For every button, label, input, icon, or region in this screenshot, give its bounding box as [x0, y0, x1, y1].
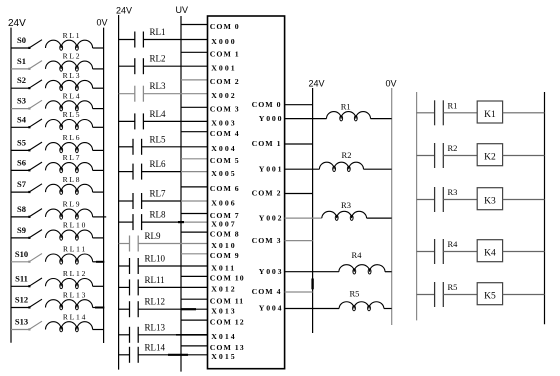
svg-text:RL3: RL3: [63, 71, 82, 80]
relay coil RL5: [46, 120, 93, 128]
wire COM 2 input terminal: [181, 79, 208, 81]
svg-text:X013: X013: [211, 307, 236, 316]
svg-text:X007: X007: [211, 219, 236, 228]
rail 0V section3: [391, 88, 393, 325]
svg-text:S11: S11: [15, 273, 28, 283]
svg-text:Y003: Y003: [259, 267, 284, 276]
svg-text:S0: S0: [17, 35, 26, 45]
switch S1: [11, 68, 30, 70]
svg-text:K1: K1: [484, 110, 496, 120]
svg-text:S4: S4: [17, 114, 27, 124]
contact R2: [417, 155, 435, 157]
svg-text:COM 9: COM 9: [210, 251, 240, 260]
svg-text:X004: X004: [211, 144, 236, 153]
svg-text:COM 2: COM 2: [252, 189, 282, 198]
svg-text:RL8: RL8: [150, 210, 167, 220]
relay coil R5: [285, 308, 340, 310]
svg-text:X001: X001: [211, 64, 236, 73]
svg-text:RL9: RL9: [63, 200, 82, 209]
PLC box: [208, 16, 285, 369]
svg-text:K2: K2: [484, 153, 496, 163]
svg-text:RL8: RL8: [63, 175, 82, 184]
svg-text:RL3: RL3: [150, 81, 167, 91]
wire COM 3 output common: [285, 240, 313, 242]
contact RL2: [119, 65, 135, 67]
svg-text:S7: S7: [17, 179, 27, 189]
svg-text:RL4: RL4: [63, 91, 82, 100]
switch S2: [11, 87, 30, 89]
switch S3: [11, 108, 30, 110]
contact RL7: [119, 200, 133, 202]
svg-text:RL10: RL10: [145, 254, 166, 264]
wire COM 0 output common: [285, 104, 313, 106]
relay coil RL6: [46, 143, 93, 151]
wire COM 8 input terminal: [181, 231, 208, 233]
svg-text:RL14: RL14: [145, 342, 166, 352]
svg-text:RL6: RL6: [150, 159, 167, 169]
rail thickening section3: [311, 279, 313, 290]
wire K5 to right rail: [503, 294, 545, 296]
svg-text:COM 4: COM 4: [210, 129, 240, 138]
svg-text:R5: R5: [448, 282, 458, 292]
svg-text:RL4: RL4: [150, 109, 167, 119]
svg-text:S5: S5: [17, 137, 26, 147]
wire COM 4 input terminal: [181, 131, 208, 133]
svg-text:COM 0: COM 0: [252, 100, 282, 109]
contact RL10: [119, 265, 130, 267]
wire junction S12 right: [95, 307, 104, 309]
wire K3 to right rail: [503, 199, 545, 201]
switch S0: [11, 47, 30, 49]
switch S5: [11, 149, 30, 151]
svg-text:COM 3: COM 3: [210, 105, 240, 114]
svg-text:Y001: Y001: [259, 164, 284, 173]
svg-text:X014: X014: [211, 332, 236, 341]
switch S12: [11, 307, 30, 309]
svg-text:R1: R1: [448, 100, 458, 110]
switch S9: [11, 237, 30, 239]
wire junction X007: [178, 221, 184, 223]
svg-text:COM 3: COM 3: [252, 236, 282, 245]
svg-text:S10: S10: [15, 249, 28, 259]
svg-text:COM 2: COM 2: [210, 77, 240, 86]
switch S7: [11, 191, 30, 193]
svg-text:0V: 0V: [97, 18, 108, 28]
contact R3: [417, 199, 435, 201]
svg-text:COM 1: COM 1: [210, 50, 240, 59]
wire COM 6 input terminal: [181, 186, 208, 188]
svg-text:RL1: RL1: [150, 27, 166, 37]
contact RL14: [119, 354, 130, 356]
switch S8: [11, 216, 30, 218]
wire COM 11 input terminal: [181, 298, 208, 300]
relay coil RL12: [46, 278, 93, 286]
contactor K5: [477, 283, 502, 305]
wire COM 1 input terminal: [181, 51, 208, 53]
svg-text:COM 13: COM 13: [210, 343, 245, 352]
relay coil R1: [285, 118, 327, 120]
svg-text:RL9: RL9: [145, 231, 162, 241]
svg-text:RL11: RL11: [63, 245, 87, 254]
rail 24V section2: [118, 15, 120, 370]
svg-text:COM 0: COM 0: [210, 22, 240, 31]
wire junction RL12-X013: [181, 308, 196, 310]
wire junction S10 right: [96, 261, 104, 263]
svg-text:RL12: RL12: [145, 297, 166, 307]
svg-text:R5: R5: [349, 289, 359, 299]
contactor K4: [477, 240, 502, 262]
svg-text:UV: UV: [176, 5, 189, 15]
svg-text:R2: R2: [342, 150, 352, 160]
svg-text:RL13: RL13: [63, 290, 87, 299]
svg-text:R1: R1: [341, 101, 351, 111]
contactor K2: [477, 144, 502, 166]
svg-text:S8: S8: [17, 204, 26, 214]
wire COM 13 input terminal: [181, 345, 208, 347]
svg-text:24V: 24V: [116, 6, 132, 16]
switch S11: [11, 285, 30, 287]
switch S4: [11, 126, 30, 128]
wire COM 2 output common: [285, 193, 313, 195]
relay coil RL3: [46, 80, 93, 88]
contact R5: [417, 294, 435, 296]
svg-text:X003: X003: [211, 119, 236, 128]
svg-text:S3: S3: [17, 96, 26, 106]
svg-text:R4: R4: [352, 250, 363, 260]
svg-text:K5: K5: [484, 292, 496, 302]
wire K4 to right rail: [503, 251, 545, 253]
svg-text:R3: R3: [448, 187, 458, 197]
svg-text:S9: S9: [17, 225, 26, 235]
relay coil RL9: [46, 209, 93, 217]
svg-text:S13: S13: [15, 317, 28, 327]
relay coil RL4: [46, 101, 93, 109]
rail UV section2: [180, 16, 182, 372]
svg-text:S12: S12: [15, 295, 28, 305]
switch S6: [11, 169, 30, 171]
svg-text:24V: 24V: [8, 18, 26, 29]
svg-text:COM 4: COM 4: [252, 287, 282, 296]
svg-text:24V: 24V: [309, 79, 325, 89]
rail left section4: [416, 92, 418, 320]
svg-text:X006: X006: [211, 198, 236, 207]
svg-text:RL12: RL12: [63, 269, 87, 278]
relay coil RL11: [46, 254, 93, 262]
svg-text:RL1: RL1: [63, 31, 82, 40]
svg-text:X015: X015: [211, 352, 236, 361]
svg-text:RL2: RL2: [63, 52, 82, 61]
rail 24V section1: [10, 28, 12, 343]
svg-text:R4: R4: [448, 239, 459, 249]
contactor K3: [477, 188, 502, 210]
wire COM 7 input terminal: [181, 213, 208, 215]
wire COM 12 input terminal: [181, 319, 208, 321]
contact RL5: [119, 146, 133, 148]
contact R1: [417, 112, 435, 114]
relay coil R2: [285, 168, 320, 170]
svg-text:X000: X000: [211, 37, 236, 46]
svg-text:COM 8: COM 8: [210, 229, 240, 238]
contact RL9: [119, 243, 130, 245]
svg-text:COM 6: COM 6: [210, 184, 240, 193]
svg-text:RL7: RL7: [150, 189, 167, 199]
svg-text:COM 5: COM 5: [210, 156, 240, 165]
relay coil RL13: [46, 300, 93, 308]
relay coil RL10: [46, 230, 93, 238]
svg-text:R3: R3: [341, 200, 351, 210]
svg-text:RL2: RL2: [150, 54, 166, 64]
svg-text:COM 12: COM 12: [210, 317, 245, 326]
wire COM 0 input terminal: [181, 24, 208, 26]
relay coil RL1: [46, 40, 93, 48]
contact RL8: [119, 221, 133, 223]
svg-text:RL13: RL13: [145, 322, 166, 332]
contact RL4: [119, 120, 135, 122]
svg-text:RL14: RL14: [63, 312, 87, 321]
svg-text:RL6: RL6: [63, 133, 82, 142]
svg-text:R2: R2: [448, 143, 458, 153]
contact RL11: [119, 286, 130, 288]
wire COM 9 input terminal: [181, 253, 208, 255]
wire K2 to right rail: [503, 155, 545, 157]
svg-text:Y000: Y000: [259, 114, 284, 123]
svg-text:Y002: Y002: [259, 213, 284, 222]
wire COM 4 output common: [285, 291, 313, 293]
contact RL3: [119, 93, 135, 95]
svg-text:RL5: RL5: [63, 110, 82, 119]
rail 24V section3: [312, 88, 314, 333]
contact RL1: [119, 39, 135, 41]
wire overhang S8: [104, 216, 107, 218]
svg-text:COM 11: COM 11: [210, 297, 244, 306]
svg-text:COM 1: COM 1: [252, 139, 282, 148]
svg-text:COM 10: COM 10: [210, 274, 245, 283]
relay coil RL8: [46, 184, 93, 192]
svg-text:X012: X012: [211, 285, 236, 294]
svg-text:0V: 0V: [386, 79, 397, 89]
wire junction RL14-X015: [168, 354, 188, 356]
svg-text:RL5: RL5: [150, 134, 167, 144]
svg-text:RL10: RL10: [63, 221, 87, 230]
contact R4: [417, 251, 435, 253]
wire COM 5 input terminal: [181, 158, 208, 160]
relay coil RL7: [46, 163, 93, 171]
wire COM 3 input terminal: [181, 106, 208, 108]
svg-text:X002: X002: [211, 91, 236, 100]
svg-text:S6: S6: [17, 157, 26, 167]
wire COM 10 input terminal: [181, 275, 208, 277]
contact RL6: [119, 171, 133, 173]
svg-text:S2: S2: [17, 75, 26, 85]
wire K1 to right rail: [503, 112, 545, 114]
svg-text:K3: K3: [484, 197, 496, 207]
relay coil R4: [285, 271, 339, 273]
svg-text:X005: X005: [211, 169, 236, 178]
wire junction X014: [176, 334, 208, 336]
svg-text:RL7: RL7: [63, 153, 82, 162]
svg-text:S1: S1: [17, 56, 26, 66]
relay coil R3: [285, 217, 322, 219]
rail 0V section1: [103, 28, 105, 343]
switch S13: [11, 329, 30, 331]
switch S10: [11, 261, 30, 263]
rail right section4: [544, 92, 546, 324]
contact RL12: [119, 308, 130, 310]
svg-text:X010: X010: [211, 241, 236, 250]
relay coil RL14: [46, 322, 93, 330]
relay coil RL2: [46, 61, 93, 69]
wire COM 1 output common: [285, 143, 313, 145]
svg-text:RL11: RL11: [145, 275, 165, 285]
contactor K1: [477, 101, 502, 123]
svg-text:K4: K4: [484, 249, 496, 259]
svg-text:Y004: Y004: [259, 304, 284, 313]
svg-text:X011: X011: [211, 263, 236, 272]
contact RL13: [119, 334, 130, 336]
